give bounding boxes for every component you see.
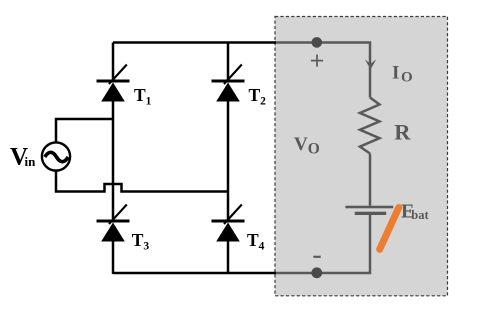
svg-text:T: T [247,230,259,250]
svg-text:2: 2 [260,96,266,108]
svg-text:1: 1 [146,96,152,108]
svg-text:in: in [25,154,37,169]
svg-text:V: V [294,134,308,155]
svg-text:4: 4 [259,241,265,253]
svg-text:I: I [392,62,399,83]
svg-text:O: O [308,140,320,157]
svg-text:T: T [132,230,144,250]
svg-text:T: T [249,85,261,105]
svg-text:O: O [401,70,413,86]
svg-text:R: R [394,120,411,145]
svg-text:3: 3 [143,241,149,253]
svg-text:T: T [134,85,146,105]
svg-text:bat: bat [411,208,429,222]
